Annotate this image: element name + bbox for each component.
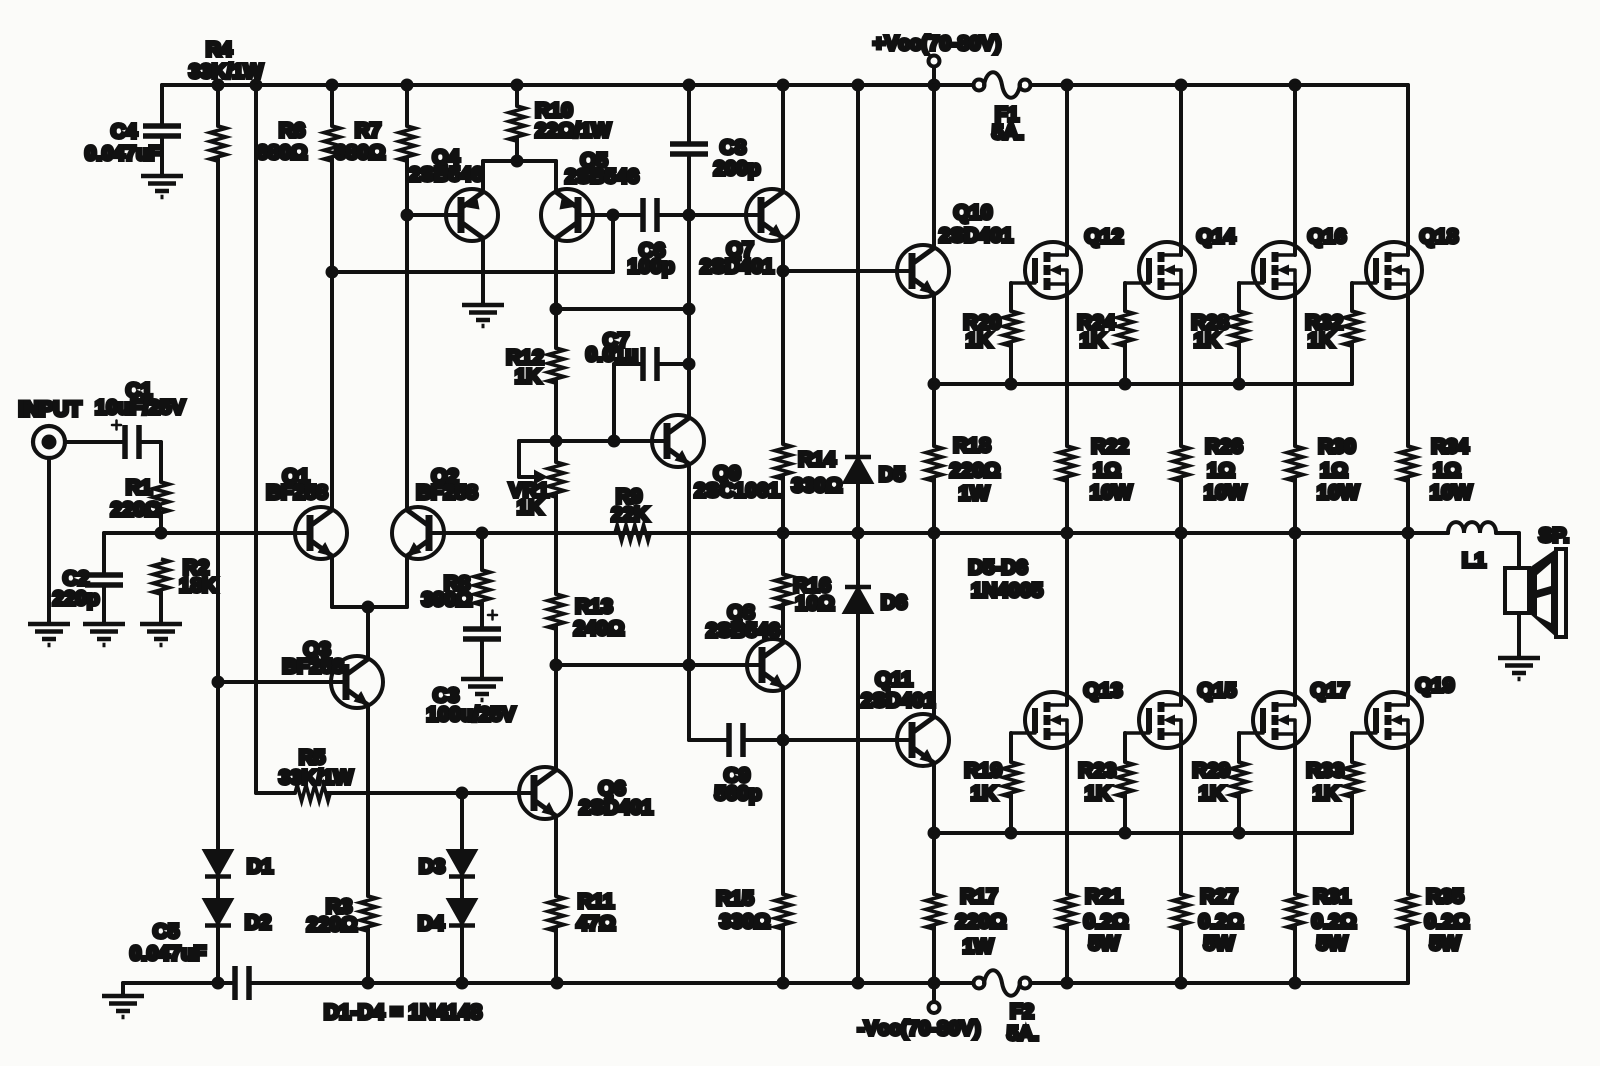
svg-text:R33: R33 [1306, 759, 1344, 782]
svg-text:220Ω: 220Ω [956, 910, 1007, 933]
svg-text:R30: R30 [1318, 435, 1356, 458]
svg-text:D5-D6: D5-D6 [968, 556, 1027, 579]
svg-text:2SC1061: 2SC1061 [694, 479, 779, 502]
svg-text:R17: R17 [960, 885, 998, 908]
svg-text:1K: 1K [1080, 329, 1106, 352]
svg-text:Q14: Q14 [1197, 225, 1236, 248]
svg-text:220p: 220p [53, 587, 100, 610]
svg-text:R1: R1 [126, 476, 152, 499]
svg-text:1K: 1K [1085, 782, 1111, 805]
svg-text:1K: 1K [1313, 782, 1339, 805]
svg-text:100u/25V: 100u/25V [427, 703, 516, 726]
svg-text:2SD401: 2SD401 [700, 255, 774, 278]
svg-text:Q10: Q10 [954, 201, 993, 224]
svg-text:100p: 100p [628, 255, 675, 278]
svg-text:R34: R34 [1431, 435, 1469, 458]
svg-text:330Ω: 330Ω [720, 910, 771, 933]
svg-text:D3: D3 [419, 855, 445, 878]
svg-text:Q15: Q15 [1198, 679, 1237, 702]
svg-text:0.2Ω: 0.2Ω [1084, 910, 1129, 933]
svg-text:220Ω: 220Ω [111, 498, 162, 521]
svg-text:240Ω: 240Ω [574, 617, 625, 640]
svg-text:D1-D4 = 1N4148: D1-D4 = 1N4148 [324, 1001, 482, 1024]
svg-text:1W: 1W [959, 482, 990, 505]
svg-text:2SD401: 2SD401 [579, 796, 653, 819]
svg-text:R26: R26 [1205, 435, 1243, 458]
svg-text:+Vcc(70-80V): +Vcc(70-80V) [873, 32, 1001, 55]
svg-text:0.2Ω: 0.2Ω [1199, 910, 1244, 933]
svg-text:D5: D5 [879, 463, 905, 486]
svg-text:10Ω: 10Ω [795, 592, 834, 615]
svg-text:5W: 5W [1430, 932, 1461, 955]
svg-text:390Ω: 390Ω [422, 588, 473, 611]
svg-text:L1: L1 [1462, 549, 1486, 572]
svg-text:10W: 10W [1430, 481, 1473, 504]
svg-text:R6: R6 [279, 119, 305, 142]
svg-text:C4: C4 [111, 120, 138, 143]
svg-text:5W: 5W [1089, 932, 1120, 955]
svg-text:1Ω: 1Ω [1093, 459, 1121, 482]
svg-text:C8: C8 [720, 136, 746, 159]
svg-text:0.2Ω: 0.2Ω [1312, 910, 1357, 933]
svg-text:R4: R4 [206, 38, 233, 61]
svg-text:R23: R23 [1078, 759, 1116, 782]
svg-text:Q11: Q11 [875, 668, 913, 691]
svg-text:22Ω/1W: 22Ω/1W [535, 119, 611, 142]
svg-text:INPUT: INPUT [19, 398, 82, 421]
svg-text:220Ω: 220Ω [307, 913, 358, 936]
svg-text:2SB546: 2SB546 [565, 165, 639, 188]
svg-text:1K: 1K [971, 782, 997, 805]
svg-text:R31: R31 [1313, 885, 1351, 908]
svg-text:1K: 1K [1308, 329, 1334, 352]
svg-text:Q18: Q18 [1420, 225, 1459, 248]
svg-text:-Vcc(70-80V): -Vcc(70-80V) [857, 1017, 980, 1040]
svg-text:D2: D2 [245, 911, 271, 934]
svg-text:R13: R13 [575, 595, 613, 618]
svg-text:200p: 200p [714, 157, 761, 180]
svg-text:C5: C5 [153, 920, 179, 943]
svg-text:680Ω: 680Ω [257, 141, 308, 164]
svg-text:2SD401: 2SD401 [939, 224, 1013, 247]
svg-text:D1: D1 [247, 855, 273, 878]
svg-text:1K: 1K [515, 365, 541, 388]
svg-text:10uF/25V: 10uF/25V [95, 396, 185, 419]
svg-text:22K: 22K [611, 503, 649, 526]
svg-text:1Ω: 1Ω [1320, 459, 1348, 482]
svg-text:D4: D4 [418, 912, 445, 935]
svg-text:1K: 1K [517, 496, 543, 519]
svg-text:5W: 5W [1317, 932, 1348, 955]
svg-text:R15: R15 [716, 887, 754, 910]
svg-text:R29: R29 [1192, 759, 1230, 782]
svg-text:R22: R22 [1091, 435, 1129, 458]
svg-text:R21: R21 [1085, 885, 1123, 908]
svg-text:R35: R35 [1426, 885, 1464, 908]
svg-text:5W: 5W [1204, 932, 1235, 955]
svg-text:10W: 10W [1090, 481, 1133, 504]
svg-text:0.047uF: 0.047uF [130, 942, 206, 965]
svg-text:1Ω: 1Ω [1207, 459, 1235, 482]
svg-text:330Ω: 330Ω [792, 474, 843, 497]
svg-text:33K/1W: 33K/1W [279, 766, 354, 789]
svg-text:47Ω: 47Ω [576, 912, 615, 935]
svg-text:R11: R11 [578, 890, 614, 913]
svg-text:BF258: BF258 [266, 481, 328, 504]
svg-text:R27: R27 [1200, 885, 1238, 908]
svg-text:R19: R19 [964, 759, 1002, 782]
svg-text:0.047uF: 0.047uF [85, 142, 161, 165]
svg-text:BF258: BF258 [282, 655, 344, 678]
svg-text:2SB546: 2SB546 [409, 163, 483, 186]
svg-text:Q16: Q16 [1308, 225, 1347, 248]
svg-text:R18: R18 [953, 434, 991, 457]
svg-text:Q12: Q12 [1085, 225, 1124, 248]
svg-text:5A.: 5A. [1007, 1022, 1039, 1045]
svg-text:1Ω: 1Ω [1433, 459, 1461, 482]
svg-text:Q17: Q17 [1311, 679, 1350, 702]
svg-text:0.2Ω: 0.2Ω [1425, 910, 1470, 933]
svg-text:5A.: 5A. [992, 121, 1024, 144]
svg-text:2SB546: 2SB546 [706, 619, 780, 642]
svg-text:33K/1W: 33K/1W [189, 60, 264, 83]
svg-text:2SD401: 2SD401 [861, 689, 935, 712]
svg-text:220Ω: 220Ω [950, 459, 1001, 482]
svg-text:10W: 10W [1204, 481, 1247, 504]
svg-text:R7: R7 [355, 119, 381, 142]
svg-text:1K: 1K [966, 329, 992, 352]
svg-text:1K: 1K [1199, 782, 1225, 805]
svg-text:1W: 1W [963, 935, 994, 958]
svg-text:SP.: SP. [1539, 524, 1569, 547]
svg-text:BF258: BF258 [416, 481, 478, 504]
svg-text:560p: 560p [715, 782, 762, 805]
svg-text:0.01u: 0.01u [586, 343, 638, 366]
svg-text:R14: R14 [798, 448, 836, 471]
svg-text:F2: F2 [1010, 1000, 1034, 1023]
svg-text:10W: 10W [1317, 481, 1360, 504]
svg-text:1N4005: 1N4005 [971, 579, 1043, 602]
svg-text:Q19: Q19 [1416, 674, 1455, 697]
svg-text:1K: 1K [1194, 329, 1220, 352]
svg-text:18K: 18K [179, 574, 217, 597]
svg-text:680Ω: 680Ω [335, 141, 386, 164]
svg-text:Q13: Q13 [1084, 679, 1123, 702]
svg-text:D6: D6 [881, 591, 907, 614]
